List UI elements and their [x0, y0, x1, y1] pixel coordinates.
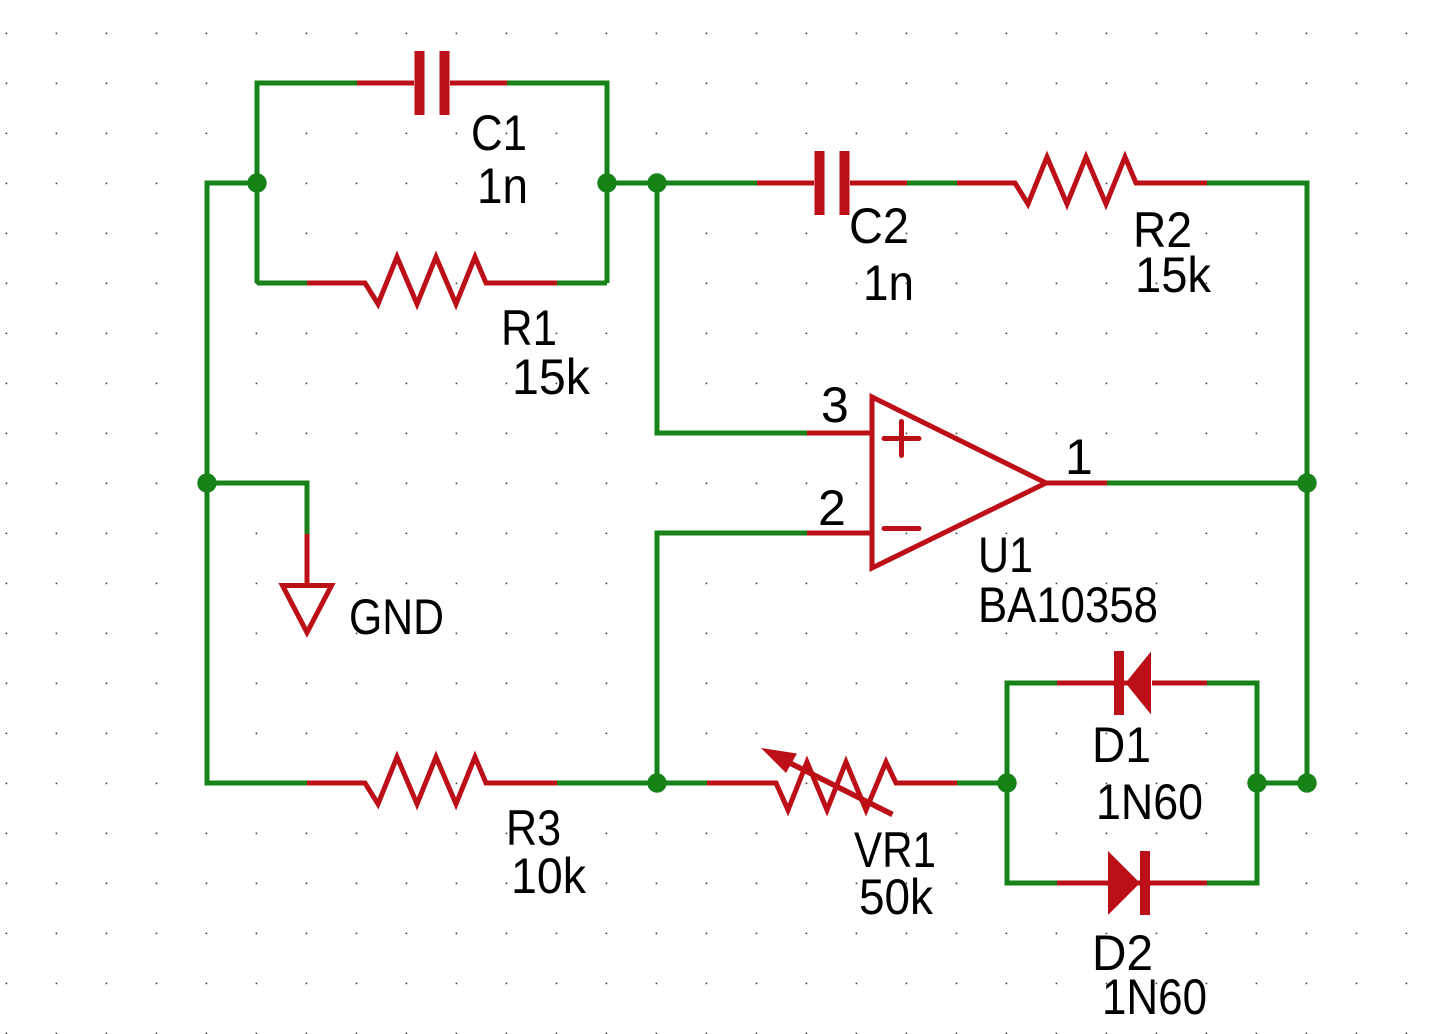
- wire diode loop left bracket: [1007, 683, 1057, 883]
- op-amp U1 body: [872, 397, 1046, 568]
- wire GND branch: [207, 483, 307, 534]
- node junction B: [647, 173, 666, 192]
- op-amp U1 plus sign: [884, 422, 919, 456]
- resistor R1: [307, 257, 557, 304]
- ground symbol GND: [283, 534, 332, 633]
- node junction diode loop left: [997, 773, 1016, 792]
- svg-text:50k: 50k: [859, 869, 934, 925]
- svg-text:1n: 1n: [477, 158, 528, 214]
- wire pin3 net from node B: [657, 183, 807, 433]
- wire C1 loop top-left: [257, 83, 357, 283]
- node junction right rail bottom: [1297, 773, 1316, 792]
- node junction left rail GND tap: [197, 473, 216, 492]
- svg-text:15k: 15k: [1135, 247, 1212, 303]
- wire right rail: [1207, 183, 1307, 783]
- wire R3 right to VR1 left pin: [557, 781, 707, 786]
- op-amp U1 pin 1 output stub: [1046, 481, 1107, 486]
- wire R1 row right green: [557, 281, 607, 286]
- wire diode loop right bracket: [1207, 683, 1257, 883]
- wire output net to right rail: [1107, 481, 1307, 486]
- potentiometer VR1 wiper arrow head: [761, 748, 797, 773]
- wire pin2 net: [657, 533, 807, 783]
- wire node A to C2 left pin: [607, 181, 757, 186]
- svg-text:15k: 15k: [512, 349, 591, 405]
- diode D1: [1057, 651, 1207, 715]
- svg-text:1n: 1n: [863, 255, 914, 311]
- svg-text:C2: C2: [849, 198, 909, 254]
- node junction output right rail: [1297, 473, 1316, 492]
- node junction at C1 right: [597, 173, 616, 192]
- svg-text:3: 3: [821, 377, 849, 433]
- capacitor C2: [757, 151, 907, 215]
- svg-text:1N60: 1N60: [1096, 774, 1203, 830]
- svg-text:1: 1: [1065, 429, 1093, 485]
- node junction bottom center: [647, 773, 666, 792]
- svg-text:BA10358: BA10358: [978, 577, 1158, 633]
- svg-text:10k: 10k: [511, 848, 587, 904]
- svg-text:GND: GND: [349, 589, 444, 645]
- wire left rail: [207, 183, 307, 783]
- potentiometer VR1 wiper arrow shaft: [780, 758, 893, 815]
- wire C1 loop top-right: [507, 83, 607, 283]
- op-amp U1 minus sign: [884, 526, 919, 531]
- svg-text:1N60: 1N60: [1102, 969, 1207, 1025]
- diode D2: [1057, 851, 1207, 915]
- wire VR1 right pin to diode loop node: [957, 781, 1007, 786]
- svg-text:D1: D1: [1092, 717, 1151, 773]
- svg-text:2: 2: [818, 480, 846, 536]
- wire R1 row left green: [257, 281, 307, 286]
- wire diode loop to right rail: [1257, 781, 1307, 786]
- resistor R3: [307, 757, 557, 804]
- op-amp U1 pin 3 stub: [807, 431, 872, 436]
- op-amp U1 pin 2 stub: [807, 531, 872, 536]
- node junction diode loop right: [1247, 773, 1266, 792]
- node junction at C1 left: [247, 173, 266, 192]
- svg-text:U1: U1: [978, 527, 1033, 583]
- wire C2 right pin to R2 left pin: [907, 181, 957, 186]
- svg-text:R1: R1: [501, 300, 557, 356]
- capacitor C1: [357, 51, 507, 115]
- svg-text:C1: C1: [471, 105, 527, 161]
- resistor R2: [957, 157, 1207, 204]
- potentiometer VR1: [707, 762, 957, 810]
